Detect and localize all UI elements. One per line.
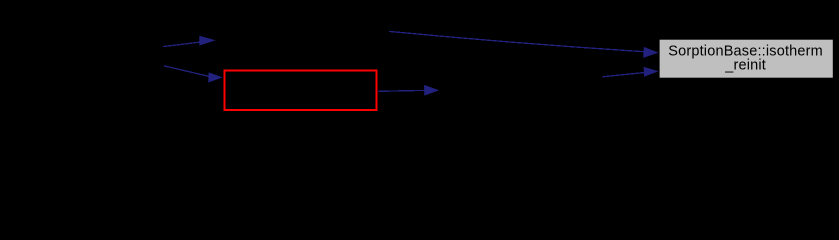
node: right middle caller (invisible on black background) <box>440 77 603 104</box>
edge from red node to right middle node <box>379 85 440 96</box>
svg-text:_reinit: _reinit <box>724 58 766 74</box>
edge from right middle node to SorptionBase::isotherm_reinit <box>603 67 659 77</box>
node SorptionBase::isotherm_reinit (current node, grey fill) <box>660 40 833 78</box>
node: leftmost caller (black border/text, invisible on black background) <box>11 44 164 70</box>
edge from left caller node to red truncated node <box>164 66 223 83</box>
edge from left caller node to upper middle node <box>163 36 216 47</box>
edge from upper middle node to SorptionBase::isotherm_reinit <box>389 31 659 58</box>
red truncated node (transparent interior, label invisible on black) <box>225 71 377 111</box>
node: upper middle caller (invisible on black background) <box>217 25 389 51</box>
